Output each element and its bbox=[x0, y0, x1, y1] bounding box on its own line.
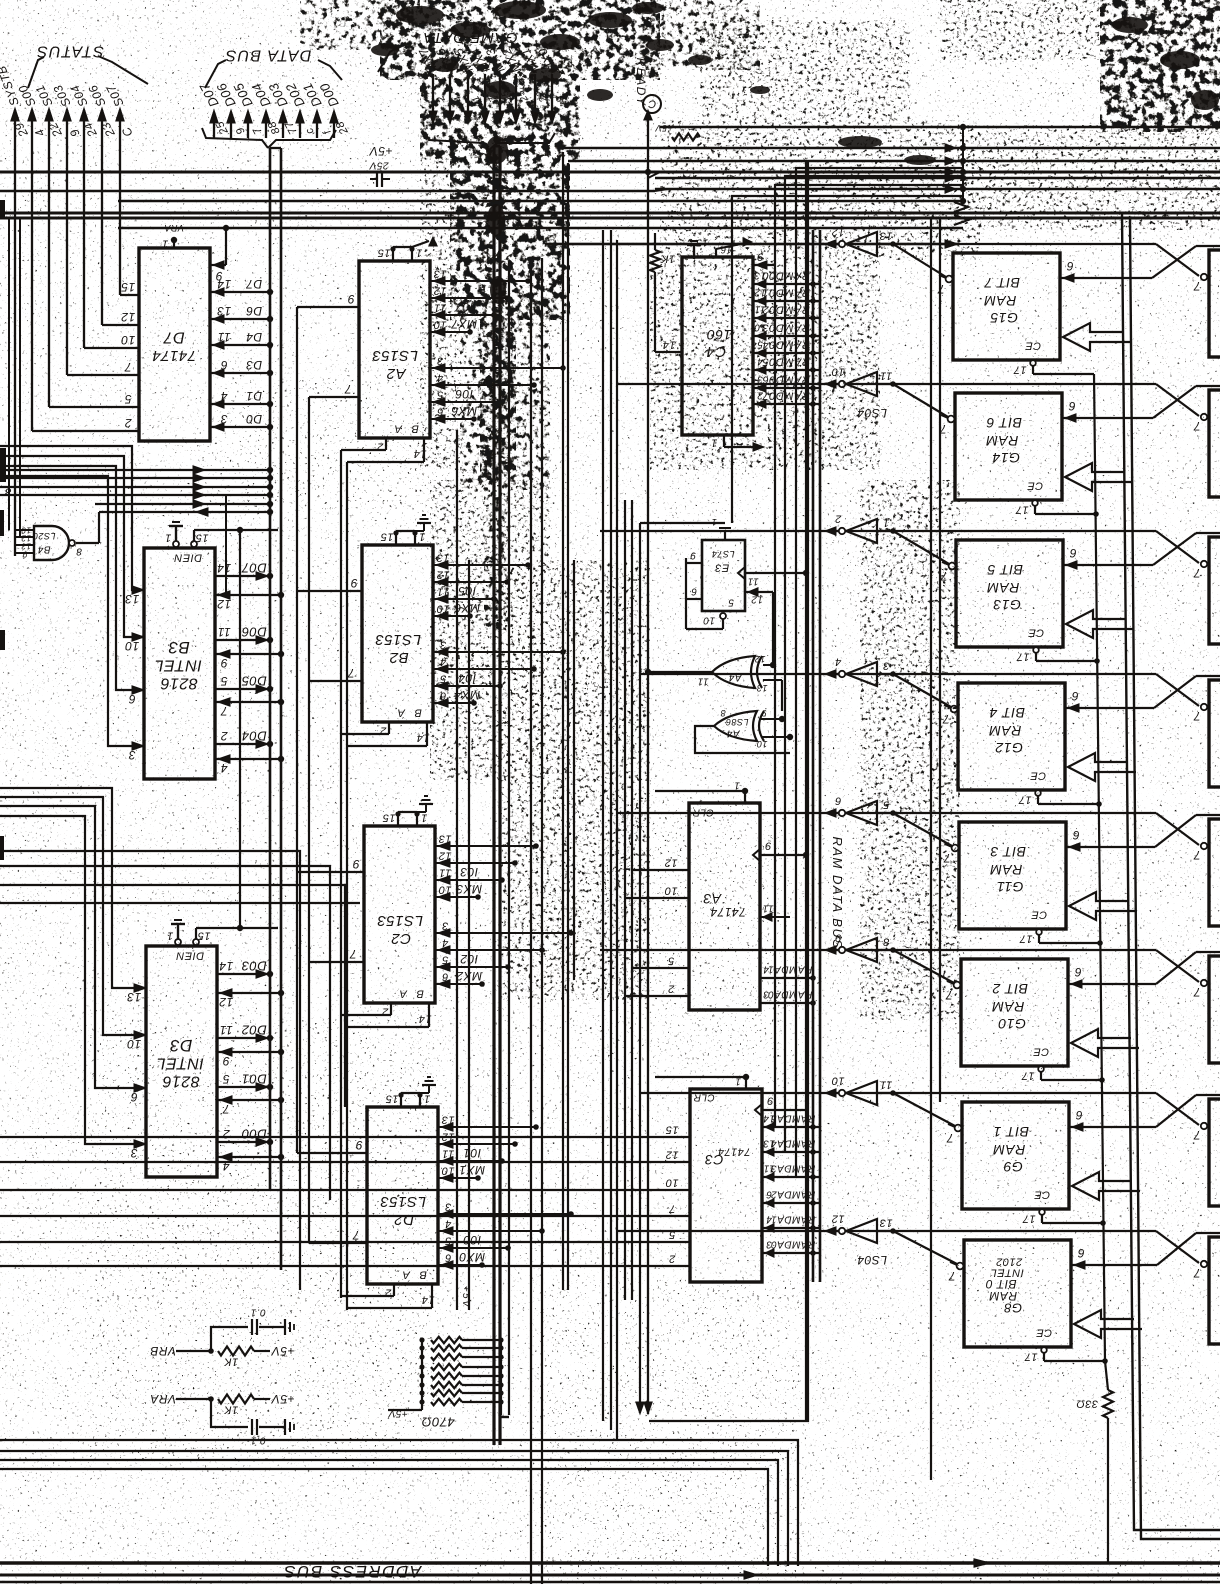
data bus vertical trunk bbox=[270, 148, 281, 1270]
DIEN chain vertical bbox=[226, 494, 240, 928]
G10 CE enable arrow bbox=[1071, 1029, 1139, 1057]
B3 data pins 5/7 D05 bbox=[215, 674, 284, 718]
D2 left pin 9 bbox=[355, 1138, 362, 1152]
A2 input pin 13 bbox=[433, 267, 447, 285]
terminal arrows bottom middle bbox=[636, 1402, 652, 1414]
D7 output pin 7 bbox=[67, 360, 139, 375]
A3 pin 13 12 11 left labels bbox=[625, 856, 689, 996]
mux data wire MX5 bbox=[451, 45, 483, 124]
A2 left pin 7 bbox=[344, 382, 352, 396]
G13 crossover to next page bbox=[1153, 531, 1220, 580]
G12 data line row bbox=[640, 670, 1156, 678]
G9 offpage RAM box sliver bbox=[1209, 1099, 1220, 1206]
G13 pin 6 input bbox=[1063, 546, 1153, 569]
G10 offpage RAM box sliver bbox=[1209, 956, 1220, 1063]
D3 data pins 5/7 D01 bbox=[217, 1072, 284, 1116]
C2 input pin 3 bbox=[438, 919, 450, 937]
bus vertical x574 bbox=[573, 560, 575, 980]
D7 input pin 4 D1 bbox=[210, 389, 273, 408]
bus vertical x632 bbox=[631, 500, 633, 1300]
multiplexer C2 74LS153 bbox=[364, 826, 435, 1003]
top bus line y191 bbox=[0, 190, 655, 193]
bus driver B3 INTEL 8216 bbox=[144, 548, 215, 779]
G9 CE enable arrow bbox=[1072, 1172, 1140, 1200]
D2 input pin 10 MX1 bbox=[441, 1163, 485, 1182]
multiplexer D2 74LS153 bbox=[367, 1107, 438, 1284]
C2 bottom pins 2 14 A B bbox=[382, 987, 432, 1027]
G15 crossover to next page bbox=[1152, 244, 1220, 293]
G10 pin 17 bbox=[1021, 1066, 1105, 1083]
G15 offpage RAM box sliver bbox=[1209, 250, 1220, 357]
D2 input pin 4 bbox=[441, 1217, 453, 1235]
G14 pin 17 bbox=[1015, 500, 1099, 517]
G15 inverter LS04 bbox=[829, 225, 893, 256]
D3 pin1 with bar symbol bbox=[167, 920, 185, 945]
bus vertical x568 bbox=[567, 163, 569, 1290]
address bus lines bbox=[0, 1559, 1220, 1582]
B2 input pin 3 bbox=[436, 638, 448, 656]
top bus line y244 bbox=[545, 243, 958, 246]
B3 pin15 DIEN feed bbox=[191, 527, 278, 547]
C4 pin 1 bottom bbox=[711, 435, 764, 451]
G10 data line row bbox=[600, 946, 1156, 954]
bus label DATA BUS bbox=[202, 47, 342, 148]
A3 right pin 11 bbox=[760, 903, 790, 922]
flip-flop E3 LS74 bbox=[702, 540, 745, 611]
G14 data line row bbox=[617, 380, 1156, 388]
B3 data pins 14/12 D07 bbox=[215, 561, 284, 611]
top bus line y148 bbox=[563, 147, 1220, 150]
mux data wire MX0 bbox=[535, 45, 567, 124]
mux data wire MX6 bbox=[433, 45, 465, 124]
data bus wire D05 bbox=[230, 80, 264, 138]
D3 left feed wires bbox=[0, 788, 146, 1144]
bus vertical x531 bbox=[530, 258, 532, 1584]
G10 pin 7 bubble bbox=[945, 981, 961, 1002]
C2 input pin 4 bbox=[438, 936, 450, 954]
G15 pin 6 input bbox=[1060, 259, 1152, 282]
C2 input pin 11 I03 bbox=[438, 865, 478, 884]
xor gate A4 pins 11 12 13 bbox=[645, 654, 782, 711]
D2 input pin 5 I00 bbox=[441, 1233, 481, 1252]
D3 left pin 3 bbox=[130, 1140, 146, 1160]
B2 input pin 6 MX4 bbox=[436, 688, 480, 707]
G8 pin 17 bbox=[1024, 1347, 1108, 1364]
D7 output pin 12 bbox=[102, 310, 139, 325]
B3 pin1 with bar symbol bbox=[165, 522, 183, 547]
decoder C4 bbox=[682, 257, 753, 435]
status wire S01 bbox=[33, 82, 66, 407]
E3 top pin bbox=[640, 517, 731, 540]
C4 pin 9 input bbox=[753, 250, 775, 269]
B2 bottom pins 2 14 A B bbox=[380, 706, 430, 746]
A2 input pin 5 I06 bbox=[433, 387, 473, 406]
G9 pin 6 input bbox=[1069, 1108, 1156, 1131]
G10 inverter LS04 bbox=[829, 931, 893, 962]
bus vertical x931 bbox=[930, 218, 932, 1480]
C4 output RAMD04 bbox=[753, 338, 820, 357]
bus vertical x563 bbox=[562, 152, 564, 1290]
G10 pin 6 input bbox=[1068, 965, 1156, 988]
D7 input pin 13 D6 bbox=[210, 304, 273, 323]
multiplexer A2 74LS153 bbox=[359, 261, 430, 438]
C4 output RAMD00 bbox=[753, 269, 820, 288]
mux data wire MX7 bbox=[416, 45, 449, 124]
D3 data pins 2/4 D00 bbox=[217, 1127, 284, 1173]
G11 CE enable arrow bbox=[1069, 892, 1137, 920]
G13 offpage RAM box sliver bbox=[1209, 537, 1220, 644]
A2 input pin 10 MX7 bbox=[433, 317, 477, 336]
B2 input pin 13 bbox=[436, 551, 450, 569]
A3 outputs RAMDA6 RAMDA7 bbox=[760, 964, 816, 1006]
D2 left pin 7 bbox=[352, 1228, 360, 1242]
D2 input pin 6 MX0 bbox=[441, 1250, 485, 1269]
svg-text:8: 8 bbox=[4, 485, 11, 497]
status wire S04 bbox=[68, 82, 101, 348]
G13 inverter LS04 bbox=[829, 512, 893, 543]
D3 pin15 DIEN feed bbox=[193, 925, 278, 945]
multiplexer B2 74LS153 bbox=[362, 545, 433, 722]
D2 input pin 12 bbox=[441, 1130, 455, 1148]
G8 inverter LS04 bbox=[829, 1212, 893, 1267]
top bus line y161 bbox=[568, 160, 1220, 163]
bus vertical x469 bbox=[468, 560, 470, 1310]
bus label MUX GAME DATA bbox=[378, 29, 555, 150]
mux data wire MX3 bbox=[483, 45, 515, 124]
G13 CE enable arrow bbox=[1066, 610, 1134, 638]
register D7 74174 bbox=[139, 248, 210, 441]
B2 input pin 11 I05 bbox=[436, 584, 476, 603]
mux data bus thick vertical pair bbox=[480, 146, 516, 1445]
G11 pin7 diagonal bbox=[893, 813, 952, 846]
A3 clock pin 9 bbox=[753, 839, 809, 861]
RAM chip G12 BIT 4 bbox=[958, 683, 1065, 790]
RAM chip G9 BIT 1 bbox=[962, 1102, 1069, 1209]
G14 CE enable arrow bbox=[1065, 463, 1133, 491]
bus vertical x617 bbox=[616, 240, 618, 1440]
G8 pin 7 bubble bbox=[948, 1262, 964, 1283]
A2 input pin 4 bbox=[433, 371, 445, 389]
B2 top pins 1 15 bbox=[380, 515, 431, 545]
G12 pin 7 bubble bbox=[942, 705, 958, 726]
bus vertical x611 bbox=[610, 230, 612, 1430]
top bus line y189 bbox=[655, 188, 1220, 191]
C4 top pins bbox=[687, 237, 752, 259]
RAM chip G13 BIT 5 bbox=[956, 540, 1063, 647]
G13 data line row bbox=[600, 527, 1156, 535]
D2 top pins 1 15 bbox=[385, 1077, 436, 1107]
G12 inverter LS04 bbox=[829, 655, 893, 686]
G14 offpage RAM box sliver bbox=[1209, 390, 1220, 497]
top bus line y218 bbox=[0, 217, 1220, 220]
bus vertical x640 bbox=[639, 523, 641, 1408]
G11 offpage RAM box sliver bbox=[1209, 819, 1220, 926]
bus vertical x940 bbox=[939, 218, 941, 1102]
data bus wire D00 bbox=[316, 80, 351, 138]
C2 input pin 5 I02 bbox=[438, 952, 478, 971]
C4 output RAMD06 bbox=[753, 373, 820, 392]
G9 inverter LS04 bbox=[829, 1074, 893, 1105]
CE bus verticals bbox=[1122, 214, 1220, 1539]
B2 input pin 4 bbox=[436, 655, 448, 673]
bypass capacitor +5V near data bus bbox=[369, 144, 393, 187]
A2 input pin 12 bbox=[433, 284, 447, 302]
G12 crossover to next page bbox=[1154, 674, 1220, 723]
G9 crossover to next page bbox=[1156, 1093, 1220, 1142]
bus vertical x625 bbox=[624, 500, 626, 1300]
A2 top pins 1 15 bbox=[377, 237, 437, 261]
mux data wire MX1 bbox=[518, 45, 550, 124]
C3 outputs RAMDA5..RAMDA0 bbox=[762, 1113, 820, 1258]
data bus wire D04 bbox=[248, 80, 282, 138]
mux data wire MX2 bbox=[499, 45, 531, 124]
D3 left pin 6 bbox=[130, 1084, 146, 1104]
G12 CE enable arrow bbox=[1068, 753, 1136, 781]
D7 output pin 15 bbox=[120, 280, 139, 295]
D2 bottom pins 2 14 A B bbox=[385, 1268, 435, 1308]
G11 pin 17 bbox=[1019, 929, 1103, 946]
left edge artifacts bbox=[0, 200, 11, 860]
VRB pullup network bbox=[150, 1307, 295, 1368]
D2 input pin 13 bbox=[441, 1113, 455, 1131]
G12 pin 6 input bbox=[1065, 689, 1154, 712]
status wire S06 bbox=[86, 82, 119, 325]
G8 pin7 diagonal bbox=[893, 1231, 957, 1264]
D3 data pins 11/9 D02 bbox=[217, 1023, 284, 1068]
A2 left pin 9 bbox=[347, 292, 354, 306]
RAM chip G15 BIT 7 bbox=[953, 253, 1060, 360]
resistor 33 ohm bbox=[1076, 1361, 1113, 1563]
B3 left pin 10 bbox=[125, 633, 144, 653]
B3 data pins 2/4 D04 bbox=[215, 729, 284, 775]
C4 output RAMD05 bbox=[753, 355, 820, 374]
top bus left jog bbox=[645, 169, 668, 191]
RAM chip G8 BIT 0 bbox=[964, 1240, 1071, 1347]
C2 input pin 12 bbox=[438, 849, 452, 867]
A2 input pin 11 I07 bbox=[433, 300, 473, 319]
connector READY bbox=[634, 58, 661, 1414]
G11 crossover to next page bbox=[1155, 813, 1220, 862]
G14 pin7 diagonal bbox=[893, 384, 948, 417]
G8 crossover to next page bbox=[1156, 1231, 1220, 1280]
G15 pin 17 bbox=[1013, 360, 1094, 375]
G13 pin 7 bubble bbox=[940, 562, 956, 583]
label +5V near D2 bottom bbox=[460, 1286, 471, 1309]
G14 inverter LS04 bbox=[829, 365, 893, 420]
top bus line y178 bbox=[655, 177, 1220, 180]
D3 data pins 14/12 D03 bbox=[217, 959, 284, 1009]
pin17 chain vertical bbox=[1094, 374, 1105, 1361]
A2 input pin 6 MX6 bbox=[433, 404, 477, 423]
D7 output pin 5 bbox=[49, 392, 139, 407]
G9 pin7 diagonal bbox=[893, 1093, 955, 1126]
G11 pin 6 input bbox=[1066, 828, 1155, 851]
bus vertical x603 bbox=[602, 230, 604, 1421]
LS153 input wires to bus verticals bbox=[430, 278, 574, 1268]
G8 data line row bbox=[617, 1227, 1156, 1235]
D7 output pin 2 bbox=[32, 416, 139, 431]
data bus wire D02 bbox=[282, 80, 316, 138]
G9 data line row bbox=[640, 1089, 1156, 1097]
G8 pin 6 input bbox=[1071, 1246, 1157, 1269]
B2 left pin 9 bbox=[350, 576, 357, 590]
G11 data line row bbox=[617, 809, 1156, 817]
C4 output RAMD07 bbox=[753, 389, 820, 408]
wire bundle D7-B3 to data bus bbox=[0, 466, 273, 516]
status wire S07 bbox=[103, 82, 135, 295]
bus label STATUS bbox=[28, 43, 148, 88]
G12 pin7 diagonal bbox=[893, 674, 951, 707]
C3 pin 1 clear bbox=[655, 1074, 749, 1089]
C4 output RAMD02 bbox=[753, 303, 820, 322]
E3 clock pin 11 bbox=[738, 567, 809, 587]
D7 pin1 VRA bbox=[162, 223, 184, 249]
C2 input pin 6 MX2 bbox=[438, 969, 482, 988]
D3 left pin 13 bbox=[127, 984, 146, 1004]
top bus line y201 bbox=[118, 200, 963, 203]
B3 data pins 11/9 D06 bbox=[215, 625, 284, 670]
G9 pin 17 bbox=[1022, 1209, 1106, 1226]
G10 pin7 diagonal bbox=[893, 950, 954, 983]
G14 pin 6 input bbox=[1062, 399, 1153, 422]
status wire S03 bbox=[51, 82, 83, 375]
G15 pin7 diagonal bbox=[893, 244, 946, 277]
D7 input pin 3 D0 bbox=[210, 412, 273, 431]
G15 CE enable arrow bbox=[1063, 323, 1131, 351]
D7 input pin 6 D3 bbox=[210, 358, 273, 377]
G12 pin 17 bbox=[1018, 790, 1102, 807]
470 ohm pullup resistor array bbox=[387, 1240, 509, 1430]
dark toner blobs top bbox=[371, 1, 1219, 304]
left edge nested wires lower bbox=[0, 851, 360, 1290]
register C3 74174 bbox=[690, 1089, 762, 1282]
C3 clock pin 9 bbox=[755, 1094, 806, 1116]
G8 offpage RAM box sliver bbox=[1209, 1237, 1220, 1344]
A2 input pin 3 bbox=[433, 354, 445, 372]
D2 input pin 11 I01 bbox=[441, 1146, 481, 1165]
D3 left pin 10 bbox=[127, 1031, 146, 1051]
E3 bottom pins 5 10 bbox=[686, 597, 734, 629]
G14 pin 7 bubble bbox=[939, 415, 955, 436]
G12 offpage RAM box sliver bbox=[1209, 680, 1220, 787]
bus vertical x542 bbox=[541, 258, 543, 1584]
G8 CE enable arrow bbox=[1074, 1310, 1142, 1338]
mux data wire MX4 bbox=[468, 45, 500, 124]
G14 crossover to next page bbox=[1153, 384, 1220, 433]
LS153 select chain verticals bbox=[297, 307, 432, 1310]
top corner joins of mid verticals bbox=[732, 161, 963, 1421]
RAM chip G11 BIT 3 bbox=[959, 822, 1066, 929]
top bus junction dots bbox=[655, 123, 968, 248]
C2 top pins 1 15 bbox=[382, 796, 433, 826]
NAND gate B4 LS20 bbox=[9, 217, 99, 560]
D7 input pin 11 D4 bbox=[210, 330, 273, 349]
bus vertical x655 bbox=[654, 233, 656, 250]
RAM chip G10 BIT 2 bbox=[961, 959, 1068, 1066]
ram data bus vertical pair bbox=[813, 230, 820, 1282]
B2 input pin 5 I04 bbox=[436, 671, 476, 690]
top bus line y213 bbox=[0, 212, 1220, 215]
C2 left pin 7 bbox=[349, 947, 357, 961]
G15 data line row bbox=[545, 240, 1156, 248]
1K pullup resistor at C4 bbox=[650, 250, 675, 352]
top bus line y172 bbox=[0, 171, 1220, 174]
B2 left pin 7 bbox=[347, 666, 355, 680]
G9 pin 7 bubble bbox=[946, 1124, 962, 1145]
B3 left pin 13 bbox=[125, 586, 144, 606]
G13 pin 17 bbox=[1016, 647, 1100, 664]
C3 left input wires bbox=[0, 1123, 690, 1266]
VRA pullup network bbox=[150, 1392, 295, 1446]
A2 bottom pins 2 14 A B bbox=[377, 422, 427, 462]
D7 output pin 10 bbox=[84, 333, 139, 348]
E3 left pins 9 6 bbox=[686, 550, 702, 629]
data bus wire D01 bbox=[299, 80, 333, 138]
G11 pin 7 bubble bbox=[943, 844, 959, 865]
bus vertical x509 bbox=[508, 262, 510, 1240]
A3 pin 1 clear bbox=[655, 780, 748, 803]
B3 left pin 3 bbox=[128, 742, 144, 762]
ram data bus label bbox=[830, 836, 845, 949]
RAM chip G14 BIT 6 bbox=[955, 393, 1062, 500]
top bus line y228 bbox=[118, 227, 963, 230]
D7 input pin 14 D7 bbox=[210, 277, 273, 296]
C4 output RAMD03 bbox=[753, 321, 820, 340]
top bus line y127 bbox=[660, 126, 1220, 129]
C2 input pin 13 bbox=[438, 832, 452, 850]
wire bottom C to ram bus loop bbox=[649, 161, 808, 1421]
B2 input pin 10 MX6 bbox=[436, 601, 480, 620]
E3 pin 12 bbox=[745, 588, 773, 668]
bus driver D3 INTEL 8216 bbox=[146, 946, 217, 1177]
small resistor near top bus bbox=[672, 134, 700, 141]
xor gate A4 pins 8 9 10 LS86 bbox=[695, 708, 793, 753]
data bus wire D07 bbox=[196, 80, 231, 138]
status wire S00 bbox=[16, 82, 48, 431]
G11 inverter LS04 bbox=[829, 794, 893, 825]
data bus wire D06 bbox=[213, 80, 247, 138]
G13 pin7 diagonal bbox=[893, 531, 949, 564]
C2 input pin 10 MX3 bbox=[438, 882, 482, 901]
D7 pin9 clock bbox=[210, 225, 229, 283]
C4 pin 14 left bbox=[655, 338, 682, 352]
C4 output RAMD01 bbox=[753, 286, 820, 305]
data bus wire D03 bbox=[265, 80, 299, 138]
status wire SYSTB bbox=[0, 64, 31, 556]
C2 left pin 9 bbox=[352, 857, 359, 871]
bus vertical x457 bbox=[456, 430, 458, 1310]
nested wires to address bus bbox=[0, 1440, 798, 1566]
G10 crossover to next page bbox=[1156, 950, 1220, 999]
B2 input pin 12 bbox=[436, 568, 450, 586]
D2 input pin 3 bbox=[441, 1200, 453, 1218]
G15 pin 7 bubble bbox=[937, 275, 953, 296]
register A3 74174 bbox=[689, 803, 760, 1010]
B3 left pin 6 bbox=[128, 686, 144, 706]
B3 left feed wires bbox=[0, 446, 144, 746]
